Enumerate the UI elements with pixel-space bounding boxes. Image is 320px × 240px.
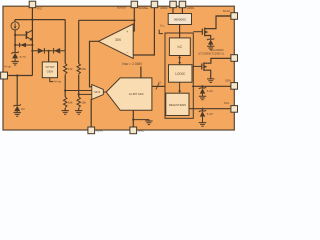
svg-text:6.4V: 6.4V (207, 112, 213, 116)
ground G4 (199, 96, 206, 100)
svg-text:0600005: 0600005 (174, 18, 186, 22)
wire: down to zener Z3 (16, 76, 18, 106)
diode D2 (pointing right) (38, 48, 44, 54)
svg-text:ADR0: ADR0 (160, 6, 168, 10)
adc U2 (12-BIT ADC) (106, 78, 152, 110)
wire: OSC to I2C (179, 25, 181, 38)
svg-text:20k: 20k (81, 67, 86, 71)
pin SDAO (right 2) (231, 55, 238, 62)
op-amp U1 (30X, pointing left) (99, 24, 134, 59)
wire: ADIN pin up to MUX (90, 99, 92, 127)
svg-text:10k: 10k (81, 100, 86, 104)
pin GND (bottom 2) (130, 127, 137, 134)
svg-text:6.4V: 6.4V (207, 89, 213, 93)
wire: pin2 to + input (133, 8, 134, 31)
wire: I2C-LOGIC double arrow (179, 57, 181, 63)
ground G8 (207, 79, 214, 83)
zener Z2 (207, 38, 214, 40)
pin ADIN (bottom 1) (88, 127, 95, 134)
diode D3 (pointing left) (53, 48, 55, 54)
wire: diode row y=52.2 (32, 50, 65, 52)
svg-text:VPTAT: VPTAT (45, 65, 54, 69)
wire: VCAP stub (159, 30, 163, 34)
box: OSC (168, 14, 191, 25)
svg-text:SENSE+: SENSE+ (138, 6, 149, 10)
svg-text:10k: 10k (68, 100, 73, 104)
pin ADR0 (top 3) (151, 1, 158, 8)
wire: tap1 to MUX (65, 90, 92, 92)
wire: VCC rail left (pin1 to column1) (15, 19, 65, 21)
pin VPTAT (left edge) (8, 75, 33, 77)
page background (0, 0, 240, 136)
zener Z1 (11, 52, 18, 54)
svg-text:SDA/ADR0: SDA/ADR0 (211, 48, 225, 52)
wire: LOGIC to REGISTERS arrow (179, 82, 181, 91)
ground under Z3 (14, 113, 21, 117)
node: VTEMP tap (48, 50, 50, 52)
node: base tap (14, 34, 16, 36)
wire: ADC data bus to logic (152, 85, 165, 87)
wire: current source to base/diode node (14, 30, 16, 52)
resistor R4 (77, 97, 80, 108)
svg-text:17k: 17k (68, 67, 73, 71)
svg-text:ADIN: ADIN (96, 128, 103, 132)
wire: VREF into ADC (140, 67, 142, 78)
divider column 2 (78, 20, 80, 110)
wire: pins to OSC (173, 8, 182, 14)
svg-text:5.7V: 5.7V (20, 55, 27, 59)
svg-text:MUX: MUX (94, 90, 100, 94)
node: emitter/diode junction (31, 44, 33, 46)
wire: tap down to VTEMP GEN (48, 51, 50, 62)
svg-text:SDA: SDA (225, 78, 231, 82)
wire: tap2 to MUX (79, 93, 92, 95)
box: REGISTERS (166, 93, 189, 115)
node: rail dot at pin1 (31, 19, 33, 21)
svg-text:ADR1: ADR1 (187, 6, 195, 10)
svg-text:30X: 30X (115, 38, 122, 42)
svg-text:REGISTERS: REGISTERS (169, 103, 186, 107)
resistor R3 (63, 97, 66, 108)
ground G5 (199, 123, 206, 127)
ground G7 (207, 46, 214, 50)
wire: pin1 down column x=32.4 (31, 8, 33, 76)
svg-text:SCLK: SCLK (223, 9, 231, 13)
pin VCC (top 1) (29, 1, 36, 8)
svg-text:12-BIT ADC: 12-BIT ADC (129, 92, 144, 96)
svg-text:SENSE−: SENSE− (117, 6, 128, 10)
svg-text:I²C: I²C (178, 45, 183, 49)
zener Z3 (13, 104, 20, 106)
pin SDA (right 3) (231, 83, 238, 90)
pin SCL (right 4) (231, 106, 238, 113)
pin ADR1 (top 4) (170, 1, 177, 8)
node: D2 row start (31, 50, 33, 52)
svg-text:12: 12 (158, 81, 162, 85)
ground G1 (11, 61, 18, 65)
wire: amp output down to MUX (90, 41, 99, 87)
svg-text:6V: 6V (21, 107, 25, 111)
wire: VTEMP stub (50, 78, 54, 82)
resistor R1 (63, 64, 66, 75)
svg-text:(LTC2990/LTC2990-1): (LTC2990/LTC2990-1) (198, 52, 224, 56)
transistor Q1 (15, 34, 26, 36)
zener Z5 (199, 110, 206, 112)
svg-text:GND: GND (138, 128, 144, 132)
pin SENSE+ (top 2) (131, 1, 138, 8)
wire: pin3 to - input (133, 8, 154, 55)
mux MUX1 (92, 85, 104, 100)
svg-text:GEN: GEN (47, 70, 54, 74)
wire: SDA line (192, 85, 231, 87)
ground G2 (61, 111, 68, 115)
diode D1 (row y=45, pointing left) (15, 44, 32, 46)
chip body (3, 6, 234, 130)
node: divider1 tap (64, 89, 66, 91)
divider column 1 (64, 20, 66, 111)
wire: ADC ground (132, 110, 134, 127)
ground G6 (145, 121, 152, 125)
ground G3 (75, 111, 82, 115)
resistor R2 (77, 64, 80, 75)
current source I1 (14, 20, 16, 22)
transistor M2 (NMOS) (193, 65, 202, 67)
svg-text:LOGIC: LOGIC (175, 72, 186, 76)
node: clamp tap (16, 74, 18, 76)
box: LOGIC (169, 65, 193, 83)
box: VTEMP GEN (42, 62, 57, 78)
box: I2C interface (169, 38, 190, 56)
pin ADR2 (top 5) (179, 1, 186, 8)
wire: SCL line (189, 108, 230, 110)
node: D1 row left (14, 44, 16, 46)
zener Z4 (199, 87, 206, 89)
svg-text:+: + (126, 30, 128, 34)
transistor M1 (NMOS) (193, 31, 202, 33)
bus slash (156, 83, 159, 89)
svg-text:SCL: SCL (224, 101, 230, 105)
node: divider2 tap (78, 93, 80, 95)
pin SCLK (right 1) (216, 15, 231, 17)
box: digital outer (165, 33, 193, 118)
wire: MUX out to ADC (103, 91, 106, 93)
wire: rail2 (column2 to pin2) (79, 19, 135, 21)
